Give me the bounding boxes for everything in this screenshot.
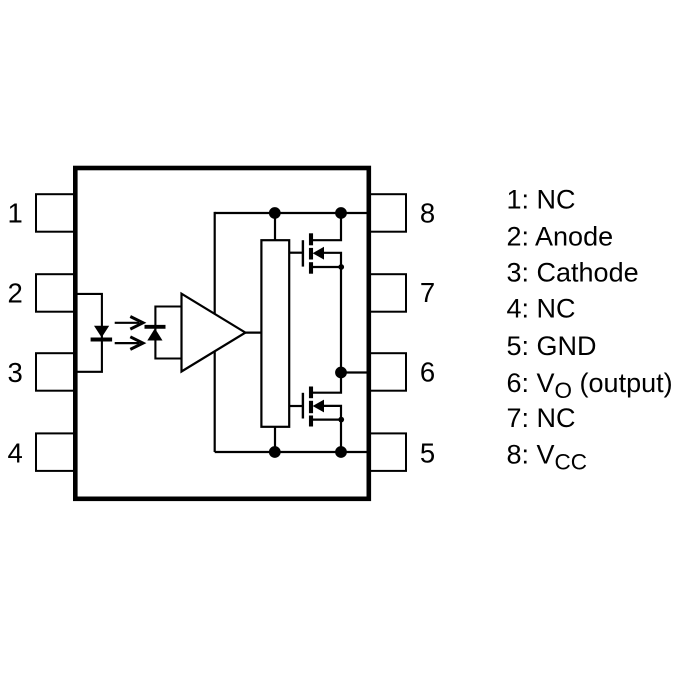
pin 4 (36, 433, 75, 471)
light arrow lower (115, 337, 143, 350)
svg-text:5: GND: 5: GND (507, 331, 597, 361)
transistor Q1 body arrow (313, 247, 324, 260)
transistor Q2 gate lead (289, 405, 303, 407)
wire pin2/pin3 bracket to LED (76, 294, 102, 372)
light arrow upper (115, 317, 143, 330)
svg-text:1: NC: 1: NC (507, 185, 576, 215)
transistor Q1 source wire (313, 266, 341, 268)
transistor Q2 source wire (313, 419, 341, 421)
svg-text:6: VO (output): 6: VO (output) (507, 368, 673, 403)
svg-text:2: 2 (7, 277, 22, 308)
wire photodiode bracket to amplifier (155, 307, 181, 359)
junction small dot Q2 source (338, 417, 344, 423)
wire left supply vertical (214, 212, 216, 452)
junction dot bottom rail left (269, 446, 281, 458)
svg-text:4: NC: 4: NC (507, 294, 576, 324)
transistor Q1 gate lead (289, 252, 303, 254)
svg-text:3: Cathode: 3: Cathode (507, 258, 639, 288)
wire driver top stub (274, 213, 276, 240)
amplifier U2 (182, 294, 246, 372)
wire top rail (Vcc) (215, 212, 368, 214)
junction small dot Q1 source (338, 264, 344, 270)
transistor Q1 drain wire (313, 213, 341, 240)
wire amplifier output (245, 332, 261, 334)
transistor Q2 drain wire (313, 373, 341, 393)
svg-text:2: Anode: 2: Anode (507, 222, 614, 252)
pin 7 (368, 274, 407, 312)
pin 8 (368, 194, 407, 232)
pin 6 (368, 353, 407, 391)
svg-text:4: 4 (7, 437, 22, 468)
svg-text:8: 8 (420, 198, 435, 229)
svg-text:5: 5 (420, 437, 435, 468)
photodiode D2 (detector) (145, 327, 166, 341)
transistor Q1 gate line (302, 240, 304, 266)
junction dot top rail right (335, 207, 347, 219)
package body U1 (75, 168, 369, 499)
wire driver bottom stub (274, 427, 276, 452)
svg-text:3: 3 (7, 357, 22, 388)
transistor Q1 body wire (316, 253, 341, 373)
LED D1 (emitter) (91, 326, 113, 340)
svg-text:7: 7 (420, 277, 435, 308)
transistor Q2 body wire (316, 406, 341, 452)
pin 1 (36, 194, 75, 232)
driver block (261, 240, 289, 427)
junction dot bottom rail right (335, 446, 347, 458)
transistor Q2 gate line (302, 393, 304, 419)
junction dot top rail left (269, 207, 281, 219)
transistor Q1 channel bars (309, 233, 313, 273)
transistor Q2 body arrow (313, 400, 324, 413)
junction dot output node (335, 367, 347, 379)
svg-text:6: 6 (420, 357, 435, 388)
transistor Q2 channel bars (309, 387, 313, 427)
wire output to pin 6 (341, 371, 368, 373)
wire bottom rail (GND) (215, 451, 368, 453)
pin 5 (368, 433, 407, 471)
pin 2 (36, 274, 75, 312)
pin 3 (36, 353, 75, 391)
svg-text:1: 1 (7, 198, 22, 229)
svg-text:7: NC: 7: NC (507, 403, 576, 433)
